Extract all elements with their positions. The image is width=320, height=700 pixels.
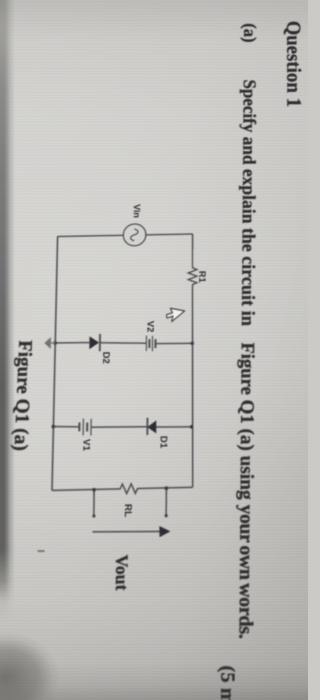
wire top rail right segment	[191, 287, 193, 488]
node D junction dot bottom rail / V1	[51, 425, 55, 429]
svg-text:V2: V2	[145, 321, 156, 333]
marks fragment	[215, 665, 236, 700]
Vout arrowhead	[159, 526, 170, 537]
figure caption	[11, 340, 35, 451]
svg-text:V1: V1	[81, 439, 92, 451]
wire V2-to-D2 lead	[101, 342, 147, 344]
diode D2 cathode bar	[99, 334, 101, 351]
body instruction line	[235, 23, 258, 638]
svg-text:D1: D1	[159, 436, 170, 449]
wire output stub upper	[165, 488, 167, 516]
wire D1-to-V1 lead	[91, 426, 147, 428]
wire V2 branch upper lead	[156, 343, 192, 344]
wire V1 lower lead	[53, 426, 79, 427]
wire D2 lower lead	[55, 341, 89, 344]
node E junction dot right rail upper stub	[165, 486, 169, 490]
source Vin circle	[123, 224, 146, 246]
wire left edge upper (Vin top lead)	[146, 233, 193, 236]
resistor R1	[188, 266, 197, 287]
node A junction dot top rail / V2	[190, 341, 194, 345]
node F junction dot right rail lower stub	[92, 488, 96, 492]
resistor RL	[117, 484, 139, 494]
ground arrow stub	[50, 342, 55, 344]
wire output stub lower	[93, 489, 96, 516]
ground arrow	[44, 337, 51, 349]
svg-text:R1: R1	[197, 271, 208, 283]
battery V1	[79, 418, 91, 435]
source Vin sine wave	[131, 229, 139, 241]
diode D2 triangle	[89, 336, 99, 349]
wire right edge lower	[52, 489, 117, 490]
terminal dot lower stub end	[92, 514, 95, 517]
svg-text:D2: D2	[101, 352, 112, 364]
svg-text:Vin: Vin	[132, 204, 143, 218]
wire bottom rail	[52, 237, 58, 491]
wire top rail left segment	[192, 234, 194, 266]
stray dash mark	[38, 550, 45, 552]
diode D1 triangle	[147, 420, 156, 433]
diode D1 cathode bar	[146, 418, 148, 435]
wire left edge lower (Vin bottom lead)	[58, 235, 124, 236]
Vout label	[112, 555, 130, 591]
heading	[284, 21, 305, 108]
svg-text:RL: RL	[122, 504, 133, 518]
battery V2	[146, 335, 155, 351]
mouse cursor	[165, 308, 184, 324]
node C junction dot bottom rail / D2	[53, 341, 57, 345]
wire D1 branch upper lead	[156, 426, 192, 427]
Vout arrow shaft	[92, 530, 159, 533]
terminal dot upper stub end	[165, 514, 168, 517]
wire right edge upper	[139, 487, 193, 488]
node B junction dot top rail / D1	[190, 425, 194, 429]
